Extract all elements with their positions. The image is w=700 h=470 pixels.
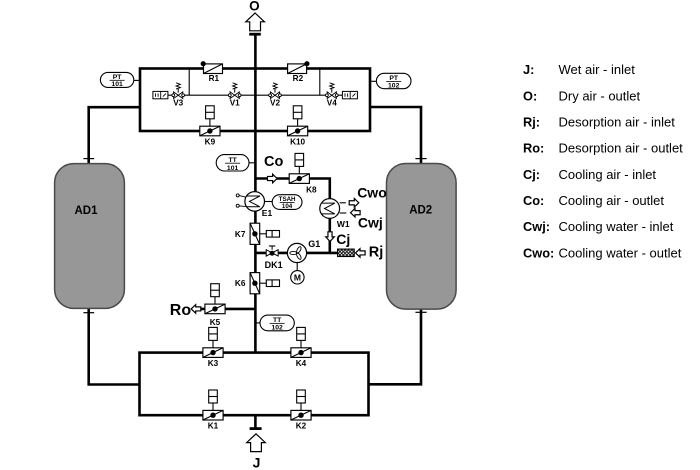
svg-text:Cooling air - inlet: Cooling air - inlet: [559, 167, 657, 182]
flow arrow Cwj: [350, 208, 360, 217]
label Co: [264, 154, 283, 170]
svg-text:V1: V1: [230, 99, 240, 108]
svg-text:K9: K9: [205, 137, 216, 146]
svg-text:DK1: DK1: [265, 260, 283, 270]
svg-text:Co:: Co:: [523, 193, 544, 208]
valve K8: [289, 153, 317, 194]
valve K7: [235, 223, 280, 244]
wire: TT101 connector: [249, 162, 255, 164]
restrictor R1: [201, 61, 223, 83]
wire: TT102 connector: [255, 322, 260, 324]
wire: dry-air outlet riser O: [254, 35, 257, 69]
svg-text:E1: E1: [262, 208, 273, 218]
svg-text:Co: Co: [264, 154, 283, 170]
node: AD2 top nozzle tick: [415, 158, 426, 160]
wire: W1 cooling water out: [340, 202, 346, 204]
valve V2: [269, 83, 282, 108]
svg-text:J: J: [253, 455, 261, 470]
svg-text:K6: K6: [235, 279, 246, 288]
svg-text:102: 102: [271, 325, 283, 332]
svg-text:104: 104: [282, 203, 293, 210]
svg-text:Desorption air - inlet: Desorption air - inlet: [559, 115, 676, 130]
pressure transmitter PT102: [376, 73, 411, 89]
svg-text:101: 101: [227, 165, 239, 172]
svg-text:O:: O:: [523, 88, 537, 103]
wire: V3-V1-V2-V4 bypass row: [168, 94, 343, 96]
svg-text:J:: J:: [523, 62, 534, 77]
legend: [523, 62, 683, 260]
wire: Co branch to K8 and down to W1: [255, 179, 329, 200]
wire: central column E1 to K7: [254, 211, 257, 224]
svg-text:K4: K4: [296, 359, 307, 368]
node: AD1 bottom nozzle tick: [83, 312, 94, 314]
vessel AD2: [387, 164, 457, 310]
svg-text:Ro:: Ro:: [523, 141, 544, 156]
wire: AD1 top connection: [89, 107, 140, 164]
wire: PT102 connector: [370, 80, 376, 82]
wire: wet-air inlet stub J: [254, 415, 257, 428]
label Rj: [369, 245, 384, 261]
flow arrow Rj: [355, 249, 365, 258]
svg-text:101: 101: [111, 81, 123, 88]
svg-text:Desorption air - outlet: Desorption air - outlet: [559, 141, 684, 156]
wire: top manifold loop: [140, 69, 370, 132]
svg-text:M: M: [294, 272, 301, 282]
svg-text:AD2: AD2: [409, 204, 432, 216]
svg-text:K1: K1: [208, 422, 219, 431]
valve K2: [291, 390, 311, 431]
wire: G1 motor link: [296, 263, 298, 271]
svg-text:K8: K8: [306, 186, 317, 195]
manual valve DK1: [265, 246, 283, 270]
svg-text:K10: K10: [290, 137, 305, 146]
wire: central column K6 to bottom manifold: [254, 294, 257, 353]
svg-text:K7: K7: [235, 230, 246, 239]
wire: Ro branch through K5: [196, 308, 255, 311]
wire: TSAH104 connector: [264, 201, 272, 203]
node: outlet terminator bar: [249, 33, 261, 36]
cooler W1: [320, 199, 350, 230]
svg-text:V3: V3: [173, 99, 183, 108]
svg-text:W1: W1: [337, 219, 350, 229]
wire: PT101 connector: [134, 79, 140, 81]
svg-text:V2: V2: [270, 99, 280, 108]
svg-text:K2: K2: [296, 422, 307, 431]
wire: bottom manifold loop: [140, 353, 369, 416]
valve K3: [203, 327, 223, 368]
svg-text:G1: G1: [308, 239, 320, 249]
svg-text:Cooling air - outlet: Cooling air - outlet: [559, 193, 665, 208]
flow arrow Cj: [326, 232, 335, 242]
valve V1: [228, 83, 241, 108]
valve K4: [291, 327, 311, 368]
node: AD2 bottom nozzle tick: [415, 311, 426, 313]
wire: AD2 top connection: [370, 107, 421, 164]
svg-text:Cj: Cj: [336, 231, 350, 247]
node: inlet terminator bar: [250, 427, 262, 430]
label Cj: [336, 231, 350, 247]
blower G1: [287, 239, 320, 262]
svg-text:Wet air - inlet: Wet air - inlet: [559, 62, 636, 77]
wire: central column K7 to K6: [254, 244, 257, 273]
label O: [249, 0, 260, 14]
wire: left bypass drop: [188, 69, 190, 96]
temperature switch TSAH104: [272, 195, 302, 211]
restrictor R2: [288, 61, 310, 83]
svg-text:V4: V4: [327, 99, 337, 108]
wire: central column through top manifold: [254, 69, 257, 132]
svg-text:Dry air - outlet: Dry air - outlet: [559, 88, 641, 103]
label Cwj: [358, 214, 383, 230]
motor M: [291, 271, 304, 284]
flow arrow J (wet air inlet): [247, 434, 266, 452]
solenoid actuator V3: [153, 91, 168, 98]
svg-text:Rj: Rj: [369, 245, 384, 261]
vessel AD1: [55, 164, 125, 309]
label Ro: [170, 302, 192, 319]
wire: right bypass drop: [319, 69, 321, 96]
svg-text:AD1: AD1: [74, 205, 98, 217]
wire: central column manifold to E1: [254, 131, 257, 192]
valve K6: [235, 273, 280, 294]
svg-text:Cwo: Cwo: [357, 185, 387, 201]
svg-text:R1: R1: [209, 74, 220, 83]
svg-text:Cwo:: Cwo:: [523, 245, 554, 260]
svg-text:K5: K5: [210, 318, 221, 327]
valve K10: [288, 106, 308, 147]
svg-text:O: O: [249, 0, 260, 14]
valve V3: [172, 83, 185, 108]
valve K1: [203, 390, 223, 431]
wire: W1 to Cj junction: [328, 218, 331, 253]
svg-text:Cj:: Cj:: [523, 167, 540, 182]
svg-text:Cooling water - outlet: Cooling water - outlet: [559, 245, 682, 260]
valve V4: [326, 83, 339, 108]
node: AD1 top nozzle tick: [83, 158, 94, 160]
filter silencer Rj: [338, 249, 355, 256]
valve K5: [205, 284, 225, 327]
wire: W1 cooling water in: [340, 212, 347, 214]
wire: G1 to Rj filter: [306, 252, 338, 255]
wire: AD2 bottom connection: [369, 309, 422, 385]
svg-text:102: 102: [388, 83, 400, 90]
svg-text:Ro: Ro: [170, 302, 192, 319]
solenoid actuator V4: [342, 91, 357, 98]
valve K9: [200, 106, 220, 147]
label Cwo: [357, 185, 387, 201]
label J: [253, 455, 261, 470]
pressure transmitter PT101: [100, 72, 133, 88]
wire: DK1 blower branch: [255, 252, 288, 255]
flow arrow O (dry air outlet): [246, 13, 265, 31]
svg-text:Rj:: Rj:: [523, 115, 540, 130]
temperature transmitter TT101: [216, 155, 249, 172]
temperature transmitter TT102: [260, 315, 294, 332]
svg-text:R2: R2: [293, 74, 304, 83]
flow arrow Cwo: [349, 199, 359, 208]
svg-text:Cwj:: Cwj:: [523, 219, 550, 234]
svg-text:K3: K3: [208, 359, 219, 368]
flow arrow Ro: [191, 305, 201, 314]
flow arrow Co: [268, 174, 278, 183]
heater E1: [236, 192, 272, 219]
wire: AD1 bottom connection: [89, 308, 140, 385]
svg-text:Cwj: Cwj: [358, 214, 383, 230]
svg-text:Cooling water - inlet: Cooling water - inlet: [559, 219, 674, 234]
